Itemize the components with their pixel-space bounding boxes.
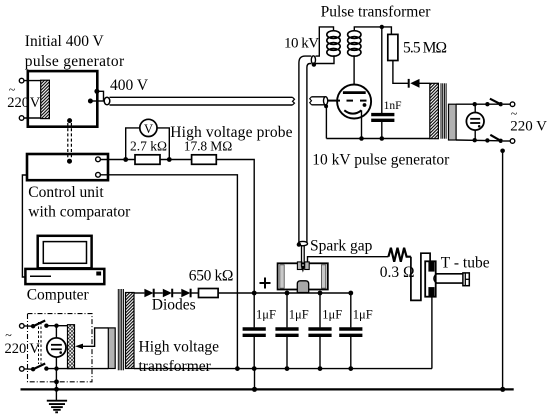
wire right transformer bottom xyxy=(456,139,501,142)
node dot cap4 bottom xyxy=(348,366,353,371)
control unit box xyxy=(27,154,108,180)
wire T-tube return down xyxy=(431,297,433,369)
node dot spark gap coax shield xyxy=(297,242,301,246)
svg-text:0.3 Ω: 0.3 Ω xyxy=(380,264,415,281)
label plus sign xyxy=(260,278,271,289)
wire control unit to 2.7k resistor xyxy=(100,159,135,161)
node dot ground bus left xyxy=(54,387,59,392)
node inner output dot xyxy=(88,99,93,104)
svg-text:1μF: 1μF xyxy=(353,308,373,322)
capacitor C4 1uF xyxy=(339,293,373,369)
svg-text:Initial 400 V: Initial 400 V xyxy=(25,33,105,50)
wire junction down to 1nF xyxy=(381,27,383,113)
svg-text:220: 220 xyxy=(7,95,29,111)
wire control unit to computer xyxy=(22,175,27,277)
spark gap coax end connector xyxy=(298,241,307,245)
terminal circle control unit upper xyxy=(96,157,101,162)
AC source circle right xyxy=(466,113,484,131)
wire D1-D2 xyxy=(154,292,163,294)
svg-text:5.5 MΩ: 5.5 MΩ xyxy=(403,40,447,57)
node dot top of control unit xyxy=(67,159,72,164)
initial pulse generator box xyxy=(28,71,98,127)
svg-text:Spark gap: Spark gap xyxy=(310,238,373,255)
pulse transformer left coil xyxy=(327,31,340,56)
svg-text:Diodes: Diodes xyxy=(152,297,196,314)
node dot cap1 top xyxy=(252,291,257,296)
node dot switch right top xyxy=(485,102,489,106)
wire between resistors xyxy=(160,159,192,161)
node dot at dashed box bottom xyxy=(54,379,59,384)
terminal circle right bottom xyxy=(510,139,515,144)
high voltage transformer core (hatched) xyxy=(126,293,135,369)
spark gap needle tip xyxy=(301,246,305,273)
coax connector 400V xyxy=(104,97,110,105)
thyratron cathode lead xyxy=(361,110,363,138)
svg-text:220: 220 xyxy=(5,341,27,357)
diode D2 xyxy=(163,289,172,298)
resistor 0.3 Ohm zigzag xyxy=(388,248,411,262)
wire from inner dot to connector xyxy=(90,100,104,102)
wire connector shield to left coil bottom xyxy=(314,55,334,63)
svg-text:~: ~ xyxy=(5,328,12,342)
label Control unit with comparator xyxy=(28,184,131,221)
wire HV transformer to diodes xyxy=(134,292,144,294)
svg-text:V: V xyxy=(30,95,41,111)
capacitor 1nF xyxy=(371,100,401,139)
wire AC source bottom to ground xyxy=(55,357,57,401)
diode D3 xyxy=(181,289,190,298)
wire 5.5M down to diode xyxy=(393,61,409,84)
node dot AC source bottom xyxy=(54,366,58,370)
10kV coax connector xyxy=(311,56,315,64)
pulse transformer right coil xyxy=(348,31,361,56)
terminal circle top left 220V xyxy=(19,78,24,83)
switch top (mains) xyxy=(31,321,49,329)
AC source circle bottom left xyxy=(47,338,66,357)
spark gap bottom electrode dome xyxy=(297,281,308,293)
svg-text:10 kV pulse generator: 10 kV pulse generator xyxy=(312,152,450,169)
svg-text:with comparator: with comparator xyxy=(28,204,131,221)
coax cable 400V to thyratron xyxy=(110,97,295,105)
node dot cap3 top xyxy=(318,291,323,296)
svg-text:High voltage: High voltage xyxy=(139,339,220,356)
wire to bottom terminal xyxy=(503,140,510,142)
transformer winding (hatched) inside initial generator xyxy=(41,80,50,118)
coax cable 10kV down to spark gap xyxy=(299,56,311,242)
resistor 17.8 MOhm xyxy=(192,155,217,165)
wire 650k to capacitor top bus xyxy=(218,292,351,294)
dashed mains enclosure box xyxy=(28,314,93,382)
wire AC right bottom xyxy=(474,130,476,140)
label ~220 V bottom left xyxy=(5,328,41,357)
voltmeter V xyxy=(140,119,157,136)
terminal circle control unit lower xyxy=(96,172,101,177)
svg-text:T - tube: T - tube xyxy=(441,255,490,272)
node dot cap1 bottom xyxy=(252,366,257,371)
wire right coil top to junction xyxy=(354,27,391,35)
wire diode to right transformer xyxy=(420,82,430,84)
computer monitor xyxy=(38,236,92,268)
T-tube body xyxy=(425,261,436,296)
node dot right drop top xyxy=(500,149,505,154)
svg-text:17.8 MΩ: 17.8 MΩ xyxy=(184,139,232,154)
variac secondary bar (gray) xyxy=(108,328,115,369)
node dot ground bus right xyxy=(500,387,505,392)
wire plug shield down to bus xyxy=(325,106,327,138)
terminal circle mains bottom xyxy=(20,367,25,372)
svg-text:1nF: 1nF xyxy=(384,100,402,112)
node dot left of 2.7k xyxy=(123,157,128,162)
node dot cap4 top xyxy=(348,291,353,296)
thyratron grid (dashed) xyxy=(328,100,367,102)
svg-text:10 kV: 10 kV xyxy=(284,36,319,52)
wire 220V bottom into box xyxy=(24,117,41,119)
node dot cap2 top xyxy=(285,291,290,296)
svg-text:pulse generator: pulse generator xyxy=(25,53,125,70)
node dot switch right bottom xyxy=(485,138,489,142)
label Initial 400 V pulse generator xyxy=(25,33,125,70)
spark gap left wall (gray) xyxy=(280,265,284,288)
wire right drop to ground bus xyxy=(502,151,504,389)
node dot ground bus center xyxy=(252,387,257,392)
capacitor C3 1uF xyxy=(308,293,342,369)
capacitor bottom bus xyxy=(134,368,432,370)
node dot cathode on bus xyxy=(359,136,364,141)
wire voltmeter right xyxy=(157,128,169,160)
svg-text:2.7 kΩ: 2.7 kΩ xyxy=(130,139,167,154)
trigger plug from 400V coax xyxy=(310,97,328,105)
wire AC source top xyxy=(55,326,57,338)
wire step from output dot xyxy=(97,91,104,100)
wire D2-D3 xyxy=(172,292,181,294)
label ~220 V right xyxy=(510,107,547,135)
computer button xyxy=(96,272,101,276)
capacitor C1 1uF xyxy=(243,293,276,369)
wire spark gap output to 0.3 ohm xyxy=(308,257,389,262)
resistor 5.5 MOhm xyxy=(388,34,398,60)
T-tube side arm xyxy=(434,274,463,283)
wire mains bottom to switch xyxy=(24,368,33,370)
node dot junction above 1nF xyxy=(380,25,384,29)
wire 220V top into box xyxy=(24,80,41,82)
switch link dashed xyxy=(39,322,42,364)
high voltage transformer primary winding lines xyxy=(118,289,123,370)
svg-text:Pulse transformer: Pulse transformer xyxy=(321,4,432,21)
wire plug to grid xyxy=(328,100,338,102)
terminal circle right top xyxy=(510,102,515,107)
svg-text:V: V xyxy=(144,122,153,136)
thyratron gas dot xyxy=(363,103,367,107)
spark gap right wall (gray) xyxy=(321,265,325,288)
svg-text:1μF: 1μF xyxy=(322,308,342,322)
wire dashed control link xyxy=(68,123,72,158)
wire bottom bus to ground bus xyxy=(254,369,256,390)
T-tube end connector box xyxy=(463,273,469,286)
svg-text:650 kΩ: 650 kΩ xyxy=(189,268,233,285)
node dot 10kV connector shield xyxy=(312,62,316,66)
variac wiper arrow xyxy=(75,328,108,349)
wire right transformer top xyxy=(456,103,501,105)
node dot cap3 bottom xyxy=(318,366,323,371)
wire D3 to 650k xyxy=(191,292,199,294)
wire probe to capacitor bus xyxy=(216,160,254,293)
wire control unit second output down to cap bottom bus xyxy=(100,175,237,369)
computer screen xyxy=(43,242,86,264)
svg-text:Computer: Computer xyxy=(27,287,90,304)
right transformer winding lines xyxy=(441,83,446,138)
resistor 650 kOhm xyxy=(199,289,219,298)
svg-text:400 V: 400 V xyxy=(110,77,149,94)
wire switch to transformer bottom xyxy=(46,368,108,370)
svg-text:220 V: 220 V xyxy=(510,119,547,135)
computer slot line xyxy=(30,275,51,277)
wire 0.3 ohm wrap to T-tube electrode xyxy=(411,253,430,300)
thyratron anode plate xyxy=(343,91,366,94)
node dot AC right bottom xyxy=(473,138,477,142)
wire right coil bottom to anode xyxy=(353,55,355,91)
svg-text:Control unit: Control unit xyxy=(28,184,104,201)
resistor 2.7 kOhm xyxy=(135,155,160,165)
T-tube top electrode (black) xyxy=(428,262,434,272)
node dot AC right top xyxy=(473,102,477,106)
wire left coil top to connector xyxy=(316,27,334,56)
spark gap top electrode left block xyxy=(297,262,302,270)
node dot AC source top xyxy=(54,324,58,328)
switch right bottom xyxy=(490,135,503,143)
computer base xyxy=(25,269,104,284)
spark gap chamber box xyxy=(278,263,328,289)
svg-text:transformer: transformer xyxy=(139,358,212,375)
node dot right of 2.7k xyxy=(167,157,172,162)
wire to top terminal xyxy=(503,103,510,105)
switch bottom (mains) xyxy=(31,364,49,372)
terminal circle bottom left 220V xyxy=(19,116,24,121)
wire voltmeter left xyxy=(126,128,140,160)
spark gap top electrode right block xyxy=(305,262,310,270)
thyratron tube circle xyxy=(337,85,371,119)
diode D4 (points left) xyxy=(409,79,420,88)
capacitor C2 1uF xyxy=(275,293,308,369)
terminal circle mains top xyxy=(20,324,25,329)
node dot cap2 bottom xyxy=(285,366,290,371)
variac primary winding (crosshatched) xyxy=(68,325,75,369)
wire AC right top xyxy=(474,104,476,112)
ground symbol xyxy=(47,401,67,413)
label High voltage transformer xyxy=(139,339,220,376)
wire switch to transformer top xyxy=(46,325,67,327)
10kV generator bottom bus xyxy=(326,138,429,140)
node output dot on box edge xyxy=(94,89,99,94)
ground bus xyxy=(21,388,514,390)
T-tube bottom electrode (black) xyxy=(428,287,434,296)
right transformer secondary bar (gray) xyxy=(449,104,457,140)
switch right top xyxy=(490,99,503,107)
node dot bottom of initial generator xyxy=(67,118,72,123)
svg-text:1μF: 1μF xyxy=(256,308,276,322)
svg-text:1μF: 1μF xyxy=(289,308,309,322)
node dot bottom bus control wire xyxy=(235,366,240,371)
thyratron cathode arc xyxy=(344,110,361,113)
wire mains top to switch xyxy=(24,325,33,327)
node dot plug shield xyxy=(324,104,328,108)
node dot 1nF on bus xyxy=(380,136,385,141)
label ~220 V top left xyxy=(7,83,41,112)
diode D1 xyxy=(144,289,153,298)
right transformer core (hatched) xyxy=(430,83,439,138)
